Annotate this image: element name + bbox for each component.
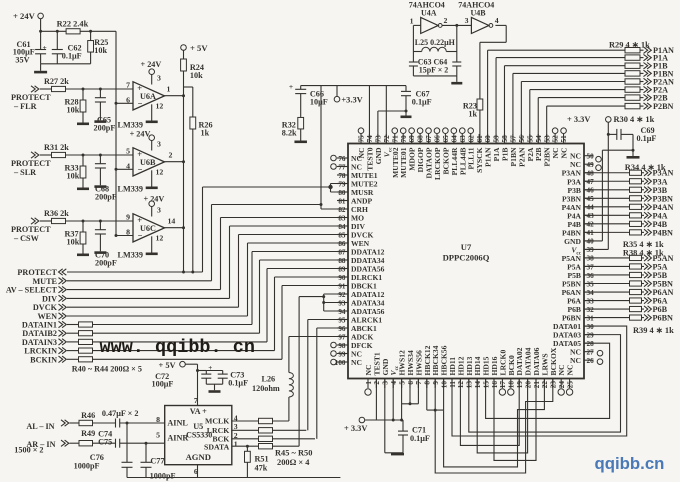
wire +3.3V to IC pin39 Vcc bbox=[607, 122, 609, 249]
capacitor C69 0.1uF bbox=[608, 133, 617, 135]
wire IC pin58 P1B to R29/R30 array bbox=[503, 66, 505, 144]
wire BCK to IC pin96 ABCK1 bbox=[316, 328, 318, 439]
svg-text:1: 1 bbox=[234, 440, 238, 449]
svg-text:2: 2 bbox=[169, 150, 173, 159]
svg-text:84: 84 bbox=[338, 223, 346, 231]
wire+resistor P5AN bbox=[584, 257, 630, 259]
svg-text:68: 68 bbox=[417, 135, 425, 143]
svg-text:12: 12 bbox=[457, 381, 465, 389]
svg-text:47: 47 bbox=[587, 178, 595, 186]
capacitor C70 200pF bbox=[99, 221, 101, 230]
wire MCLK to IC pin97 ADCK bbox=[289, 336, 348, 338]
svg-text:R39 4 ∗ 1k: R39 4 ∗ 1k bbox=[633, 326, 674, 335]
svg-text:DATAIB2: DATAIB2 bbox=[22, 329, 57, 338]
wire PROTECT to pins 79/80 bbox=[202, 187, 204, 272]
svg-text:70: 70 bbox=[400, 135, 408, 143]
svg-text:R45 ~ R50: R45 ~ R50 bbox=[275, 448, 312, 457]
svg-text:39: 39 bbox=[587, 246, 595, 254]
wire HD11 to DATA01 bbox=[452, 326, 627, 436]
wire SDATA riser bbox=[298, 297, 300, 447]
capacitor C76 1000pF bbox=[126, 423, 128, 462]
resistor R36 2k bbox=[52, 218, 66, 223]
wire DIV to IC bbox=[229, 226, 231, 298]
svg-text:48: 48 bbox=[587, 170, 595, 178]
wire HD15 to DATA05 bbox=[486, 343, 610, 418]
svg-text:80: 80 bbox=[338, 189, 346, 197]
svg-text:BCKIN: BCKIN bbox=[30, 355, 57, 364]
svg-text:LM339: LM339 bbox=[118, 185, 143, 194]
svg-text:97: 97 bbox=[338, 333, 346, 341]
IC bottom pin stubs bbox=[367, 379, 369, 389]
svg-text:16: 16 bbox=[491, 381, 499, 389]
capacitor C73 0.1uF bbox=[206, 370, 222, 372]
svg-text:1: 1 bbox=[365, 381, 373, 385]
IC U7 DPPC2006Q body bbox=[348, 144, 584, 379]
svg-text:43: 43 bbox=[587, 212, 595, 220]
svg-text:0.1μF: 0.1μF bbox=[410, 434, 430, 443]
wire IC pin2 TEST1 down bbox=[375, 379, 377, 421]
svg-text:88: 88 bbox=[338, 257, 346, 265]
resistor array element to P1B bbox=[625, 63, 640, 68]
ground U6A pin12 bbox=[151, 104, 153, 120]
op-amp U6B (LM339) bbox=[133, 148, 165, 176]
svg-text:VA +: VA + bbox=[190, 407, 207, 416]
IC U5 CS5330 body bbox=[165, 406, 232, 465]
svg-text:2: 2 bbox=[444, 16, 448, 25]
svg-text:33: 33 bbox=[587, 297, 595, 305]
svg-text:1500 × 2: 1500 × 2 bbox=[14, 446, 43, 455]
wire divider bottom rail bbox=[41, 63, 91, 65]
svg-text:74: 74 bbox=[366, 135, 374, 143]
svg-text:SDATA: SDATA bbox=[204, 443, 230, 452]
svg-text:8: 8 bbox=[424, 381, 432, 385]
wire IC pin56 P2AN to R29/R30 array bbox=[520, 82, 522, 144]
wire IC pin4 Vcc down bbox=[392, 379, 394, 421]
svg-text:99: 99 bbox=[338, 350, 346, 358]
svg-text:6: 6 bbox=[407, 381, 415, 385]
svg-text:4: 4 bbox=[390, 381, 398, 385]
svg-text:96: 96 bbox=[338, 325, 346, 333]
svg-text:10: 10 bbox=[440, 381, 448, 389]
svg-text:3: 3 bbox=[465, 16, 469, 25]
svg-text:37: 37 bbox=[587, 263, 595, 271]
ground below C72/C73 bbox=[214, 384, 216, 390]
svg-text:1: 1 bbox=[410, 16, 414, 25]
resistor R23 1k bbox=[477, 99, 483, 110]
wire MUTE to +3.3V vertical bbox=[211, 205, 213, 281]
svg-text:73: 73 bbox=[374, 135, 382, 143]
wire LRCKIN to IC bbox=[274, 277, 276, 351]
wire jog to R26 bbox=[184, 86, 193, 88]
svg-text:35V: 35V bbox=[15, 55, 29, 64]
svg-text:81: 81 bbox=[338, 197, 346, 205]
svg-text:51: 51 bbox=[560, 135, 568, 143]
wire U4A out to U4B in bbox=[442, 24, 471, 26]
svg-text:66: 66 bbox=[434, 135, 442, 143]
svg-text:R51: R51 bbox=[255, 454, 269, 463]
svg-text:AV – SELECT: AV – SELECT bbox=[6, 286, 58, 295]
svg-text:DVCK: DVCK bbox=[33, 303, 58, 312]
resistor R31 2k bbox=[52, 152, 66, 157]
svg-text:NC: NC bbox=[351, 358, 362, 367]
svg-text:AL – IN: AL – IN bbox=[26, 422, 54, 431]
wire IC pin57 P1BN to R29/R30 array bbox=[512, 73, 514, 143]
resistor array element to P2A bbox=[625, 87, 640, 92]
IC right pin stubs bbox=[584, 155, 594, 157]
svg-text:100: 100 bbox=[335, 359, 346, 367]
wire U6C output pin14 bbox=[165, 227, 184, 229]
svg-text:R22 2.4k: R22 2.4k bbox=[57, 20, 89, 29]
svg-text:90: 90 bbox=[338, 274, 346, 282]
svg-text:www. qqibb. cn: www. qqibb. cn bbox=[100, 337, 255, 358]
wire oscillator ground rail bbox=[413, 75, 456, 77]
wire HD13 to DATA03 bbox=[469, 335, 621, 432]
wire+resistor P5B bbox=[584, 274, 630, 276]
svg-text:11: 11 bbox=[449, 381, 457, 388]
capacitor C66 10uF bbox=[300, 86, 302, 90]
wire+resistor P5BN bbox=[584, 283, 630, 285]
wire+resistor P4AN bbox=[584, 206, 630, 208]
svg-text:59: 59 bbox=[493, 135, 501, 143]
wire +24V rail bbox=[41, 30, 67, 32]
svg-text:9: 9 bbox=[432, 381, 440, 385]
svg-text:53: 53 bbox=[543, 135, 551, 143]
svg-text:25: 25 bbox=[566, 381, 574, 389]
svg-text:22: 22 bbox=[541, 381, 549, 389]
svg-text:3: 3 bbox=[157, 205, 161, 214]
svg-text:65: 65 bbox=[442, 135, 450, 143]
ground below C69 bbox=[627, 156, 640, 159]
resistor array element to P2AN bbox=[625, 79, 640, 84]
svg-text:U6A: U6A bbox=[140, 92, 156, 101]
svg-text:+ 24V: + 24V bbox=[130, 130, 151, 139]
svg-text:AGND: AGND bbox=[186, 452, 211, 462]
resistor R26 1k bbox=[190, 117, 196, 129]
svg-text:77: 77 bbox=[338, 163, 346, 171]
svg-text:58: 58 bbox=[501, 135, 509, 143]
svg-text:200pF: 200pF bbox=[95, 193, 117, 202]
svg-text:82: 82 bbox=[338, 206, 346, 214]
wire IC pin74 to rail bbox=[368, 86, 370, 144]
resistor R33 10k bbox=[82, 155, 84, 166]
wire+resistor P3B bbox=[584, 189, 630, 191]
svg-text:64: 64 bbox=[450, 135, 458, 143]
wire IC pin40 GND to ground bbox=[584, 240, 602, 242]
resistor R51 47k bbox=[246, 446, 248, 451]
svg-text:76: 76 bbox=[338, 155, 346, 163]
svg-text:+: + bbox=[289, 82, 293, 91]
svg-text:57: 57 bbox=[510, 135, 518, 143]
wire DATAIN1 to IC bbox=[251, 252, 253, 325]
svg-text:DPPC2006Q: DPPC2006Q bbox=[443, 253, 490, 263]
svg-text:92: 92 bbox=[338, 291, 346, 299]
svg-text:+ 5V: + 5V bbox=[190, 43, 208, 53]
svg-text:– SLR: – SLR bbox=[13, 168, 36, 177]
wire WEN to IC bbox=[247, 243, 249, 316]
svg-text:MCLK: MCLK bbox=[205, 417, 229, 426]
svg-text:61: 61 bbox=[476, 135, 484, 143]
svg-text:10k: 10k bbox=[190, 71, 203, 80]
svg-text:4: 4 bbox=[495, 16, 499, 25]
wire IC pin73 GND to C67 ground bbox=[377, 111, 379, 144]
svg-text:+ 24V: + 24V bbox=[141, 60, 162, 69]
wire reference-voltage vertical node bbox=[115, 31, 117, 235]
svg-text:28: 28 bbox=[587, 340, 595, 348]
op-amp U6A (LM339) bbox=[133, 82, 165, 110]
wire U6C minus input bbox=[116, 235, 133, 237]
svg-text:+ 3.3V: + 3.3V bbox=[567, 115, 590, 124]
svg-text:P4BN: P4BN bbox=[653, 228, 674, 237]
wire DATAIB2 to IC bbox=[259, 260, 261, 333]
resistor array element to P1BN bbox=[625, 71, 640, 76]
resistor array element to P1AN bbox=[625, 48, 640, 53]
wire+resistor P5A bbox=[584, 265, 630, 267]
ground below C61 bbox=[40, 64, 42, 71]
svg-text:PROTECT: PROTECT bbox=[17, 268, 57, 277]
svg-text:1: 1 bbox=[167, 84, 171, 93]
capacitor C68 200pF bbox=[99, 155, 101, 164]
svg-text:34: 34 bbox=[587, 289, 595, 297]
svg-text:10μF: 10μF bbox=[310, 97, 328, 106]
wire U4A input node bbox=[413, 24, 420, 26]
svg-text:15pF × 2: 15pF × 2 bbox=[419, 66, 449, 75]
power +3.3V node bottom bbox=[359, 417, 365, 423]
svg-text:– FLR: – FLR bbox=[13, 102, 37, 111]
resistor R37 10k bbox=[82, 221, 84, 232]
svg-text:44: 44 bbox=[587, 204, 595, 212]
wire+resistor P4B bbox=[584, 223, 630, 225]
svg-text:L25: L25 bbox=[415, 38, 428, 47]
svg-text:3: 3 bbox=[157, 139, 161, 148]
svg-text:54: 54 bbox=[535, 135, 543, 143]
svg-text:qqibb.cn: qqibb.cn bbox=[595, 454, 665, 473]
svg-text:5: 5 bbox=[126, 147, 130, 156]
svg-text:41: 41 bbox=[587, 229, 595, 237]
svg-text:7: 7 bbox=[415, 381, 423, 385]
svg-text:NC: NC bbox=[570, 356, 581, 365]
svg-text:1k: 1k bbox=[201, 129, 210, 138]
svg-text:LM339: LM339 bbox=[118, 121, 143, 130]
wire LRWS pin22 loop bbox=[444, 379, 545, 467]
svg-text:36: 36 bbox=[587, 272, 595, 280]
svg-text:3: 3 bbox=[157, 73, 161, 82]
resistor array element to P2B bbox=[625, 95, 640, 100]
svg-text:R30 4 ∗ 1k: R30 4 ∗ 1k bbox=[614, 115, 655, 124]
power +3.3V tap bbox=[334, 96, 340, 102]
svg-text:18: 18 bbox=[508, 381, 516, 389]
svg-text:24: 24 bbox=[558, 381, 566, 389]
IC left pin stubs bbox=[337, 157, 348, 159]
svg-text:17: 17 bbox=[499, 381, 507, 389]
svg-text:0.1μF: 0.1μF bbox=[228, 379, 248, 388]
svg-text:35: 35 bbox=[587, 280, 595, 288]
svg-text:1000pF: 1000pF bbox=[74, 462, 100, 471]
junction pins79-80 tie bbox=[330, 184, 332, 193]
svg-text:93: 93 bbox=[338, 299, 346, 307]
svg-text:50: 50 bbox=[587, 153, 595, 161]
svg-text:60: 60 bbox=[484, 135, 492, 143]
svg-text:+: + bbox=[43, 43, 47, 52]
svg-text:0.47μF × 2: 0.47μF × 2 bbox=[102, 409, 139, 418]
wire IC pin59 P1A to R29/R30 array bbox=[495, 58, 497, 144]
svg-text:AINR: AINR bbox=[167, 433, 188, 442]
resistor R22 2.4k bbox=[66, 29, 80, 34]
svg-text:MUTE: MUTE bbox=[32, 277, 57, 286]
wire U5 LRCK row + resistor bbox=[232, 429, 259, 431]
svg-text:+ 3.3V: + 3.3V bbox=[344, 424, 367, 433]
svg-text:+ 24V: + 24V bbox=[13, 11, 36, 21]
svg-text:85: 85 bbox=[338, 231, 346, 239]
IC top pin stubs bbox=[360, 134, 362, 144]
svg-text:86: 86 bbox=[338, 240, 346, 248]
svg-text:R27 2k: R27 2k bbox=[44, 77, 69, 86]
wire BCKIN to IC bbox=[281, 286, 283, 360]
svg-text:0.22μH: 0.22μH bbox=[430, 38, 456, 47]
wire BCKOX pin23 loop bbox=[435, 379, 553, 474]
svg-text:10k: 10k bbox=[67, 105, 80, 114]
svg-text:– CSW: – CSW bbox=[13, 234, 40, 243]
svg-text:L26: L26 bbox=[262, 374, 276, 383]
wire comparator output bus bbox=[183, 96, 185, 272]
svg-text:98: 98 bbox=[338, 342, 346, 350]
svg-text:U4B: U4B bbox=[471, 9, 487, 18]
resistor array element to P1A bbox=[625, 55, 640, 60]
svg-text:45: 45 bbox=[587, 195, 595, 203]
svg-text:12: 12 bbox=[156, 234, 164, 243]
resistor array element to P2BN bbox=[625, 103, 640, 108]
capacitor C77 1000pF bbox=[145, 443, 147, 462]
wire+resistor P6AN bbox=[584, 291, 630, 293]
wire U5 AGND pin6 bbox=[197, 465, 199, 478]
svg-text:14: 14 bbox=[168, 216, 176, 225]
svg-text:69: 69 bbox=[408, 135, 416, 143]
wire SLR input line bbox=[40, 154, 52, 156]
svg-text:46: 46 bbox=[587, 187, 595, 195]
svg-text:NC: NC bbox=[566, 365, 575, 376]
power +5V node bbox=[181, 45, 187, 51]
svg-text:C77: C77 bbox=[150, 456, 164, 465]
wire HD16 to DATA06 bbox=[494, 379, 536, 461]
svg-text:P2BN: P2BN bbox=[653, 102, 674, 111]
svg-text:12: 12 bbox=[156, 168, 164, 177]
resistor R32 8.2k bbox=[298, 117, 304, 129]
wire U6A output pin1 bbox=[165, 95, 184, 97]
resistor R28 10k bbox=[82, 89, 84, 100]
svg-text:21: 21 bbox=[533, 381, 541, 389]
ground below C71 bbox=[385, 452, 403, 454]
svg-text:PROTECT: PROTECT bbox=[11, 93, 51, 102]
capacitor C64 15pF bbox=[456, 25, 458, 62]
wire+resistor P4A bbox=[584, 214, 630, 216]
wire U5 SDATA row + resistor bbox=[232, 445, 259, 447]
svg-text:71: 71 bbox=[391, 135, 399, 143]
wire tie HWS pins 5-7 bbox=[401, 379, 403, 421]
svg-text:40: 40 bbox=[587, 238, 595, 246]
svg-text:0.1μF: 0.1μF bbox=[637, 134, 657, 143]
wire analog ground rail bbox=[127, 477, 340, 479]
wire +3.3V down to pin82 bbox=[320, 86, 322, 209]
wire U5 BCK row + resistor bbox=[232, 438, 259, 440]
svg-text:38: 38 bbox=[587, 255, 595, 263]
svg-text:R36 2k: R36 2k bbox=[44, 209, 69, 218]
svg-text:R40 ~ R44 200Ω × 5: R40 ~ R44 200Ω × 5 bbox=[72, 365, 142, 374]
wire U4B output to R23 bbox=[495, 24, 506, 26]
svg-text:DIV: DIV bbox=[42, 294, 57, 303]
wire HD12 to DATA02 bbox=[460, 379, 519, 446]
svg-text:100μF: 100μF bbox=[152, 380, 174, 389]
resistor R24 10k bbox=[183, 50, 185, 59]
svg-text:30: 30 bbox=[587, 323, 595, 331]
svg-text:8: 8 bbox=[156, 415, 160, 424]
svg-text:75: 75 bbox=[358, 135, 366, 143]
svg-text:5: 5 bbox=[398, 381, 406, 385]
svg-text:R46: R46 bbox=[81, 411, 95, 420]
wire +3.3V rail bbox=[301, 85, 406, 87]
wire+resistor P3AN bbox=[584, 172, 630, 174]
svg-text:DATAIN3: DATAIN3 bbox=[22, 338, 57, 347]
svg-text:42: 42 bbox=[587, 221, 595, 229]
wire IC pin72 Vcc to rail bbox=[385, 86, 387, 144]
svg-text:95: 95 bbox=[338, 316, 346, 324]
svg-text:83: 83 bbox=[338, 214, 346, 222]
svg-text:10k: 10k bbox=[67, 171, 80, 180]
wire AR line + resistor R49 + cap C75 bbox=[70, 442, 80, 444]
wire AL line + resistor R46 + cap C74 bbox=[70, 422, 80, 424]
svg-text:15: 15 bbox=[482, 381, 490, 389]
svg-text:23: 23 bbox=[550, 381, 558, 389]
svg-text:87: 87 bbox=[338, 248, 346, 256]
wire HD14 to DATA04 bbox=[477, 379, 527, 453]
svg-text:72: 72 bbox=[383, 135, 391, 143]
svg-text:3: 3 bbox=[382, 381, 390, 385]
svg-text:200pF: 200pF bbox=[95, 259, 117, 268]
wire+resistor P6B bbox=[584, 308, 630, 310]
wire IC pin60 P1AN to R29/R30 array bbox=[487, 50, 489, 143]
svg-text:U4A: U4A bbox=[421, 9, 437, 18]
svg-text:120ohm: 120ohm bbox=[252, 384, 280, 393]
svg-text:7: 7 bbox=[126, 81, 130, 90]
svg-text:AINL: AINL bbox=[167, 418, 188, 427]
svg-text:89: 89 bbox=[338, 265, 346, 273]
capacitor C65 200pF bbox=[99, 89, 101, 98]
wire IC pin55 P2A to R29/R30 array bbox=[529, 90, 531, 144]
svg-text:200pF: 200pF bbox=[94, 124, 116, 133]
wire CSW input line bbox=[40, 220, 52, 222]
wire+resistor P3BN bbox=[584, 197, 630, 199]
svg-text:9: 9 bbox=[126, 213, 130, 222]
node PROTECT-SLR input bbox=[31, 152, 39, 158]
svg-text:79: 79 bbox=[338, 180, 346, 188]
node PROTECT-FLR input bbox=[31, 86, 39, 92]
svg-text:14: 14 bbox=[474, 381, 482, 389]
wire U5 MCLK row + resistor bbox=[232, 420, 259, 422]
svg-text:49: 49 bbox=[587, 161, 595, 169]
wire DVCK to IC bbox=[238, 235, 240, 308]
svg-text:55: 55 bbox=[526, 135, 534, 143]
wire+resistor P6BN bbox=[584, 317, 630, 319]
svg-text:29: 29 bbox=[587, 331, 595, 339]
capacitor C72 100uF bbox=[196, 369, 199, 372]
inductor L26 120ohm bbox=[288, 397, 290, 421]
svg-text:56: 56 bbox=[518, 135, 526, 143]
wire LRCK to IC pin95 ALRCK1 bbox=[307, 320, 309, 431]
wire tie HBCK pins 8-10 bbox=[426, 379, 428, 411]
svg-text:13: 13 bbox=[466, 381, 474, 389]
svg-text:PROTECT: PROTECT bbox=[11, 159, 51, 168]
svg-text:U7: U7 bbox=[461, 242, 472, 252]
svg-text:8.2k: 8.2k bbox=[282, 128, 297, 137]
svg-text:32: 32 bbox=[587, 306, 595, 314]
